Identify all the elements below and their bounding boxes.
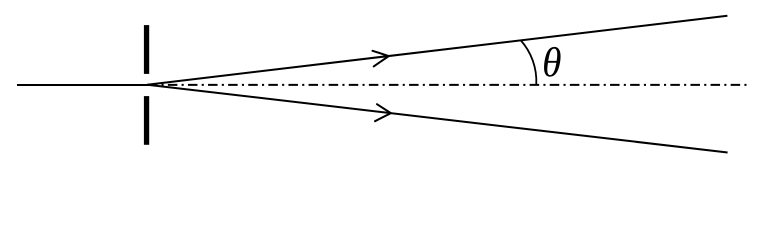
arrowhead on upper ray xyxy=(373,51,389,67)
incident ray (horizontal line entering slit from left) xyxy=(17,84,150,86)
optical axis (dash-dot centerline) xyxy=(151,84,747,86)
slit barrier lower bar xyxy=(144,96,149,145)
slit barrier upper bar xyxy=(144,25,149,74)
angle label theta xyxy=(544,47,561,77)
arrowhead on lower ray xyxy=(375,104,391,121)
angle arc between upper ray and axis xyxy=(521,40,537,84)
lower diffracted ray xyxy=(147,85,727,153)
upper diffracted ray xyxy=(147,16,727,85)
